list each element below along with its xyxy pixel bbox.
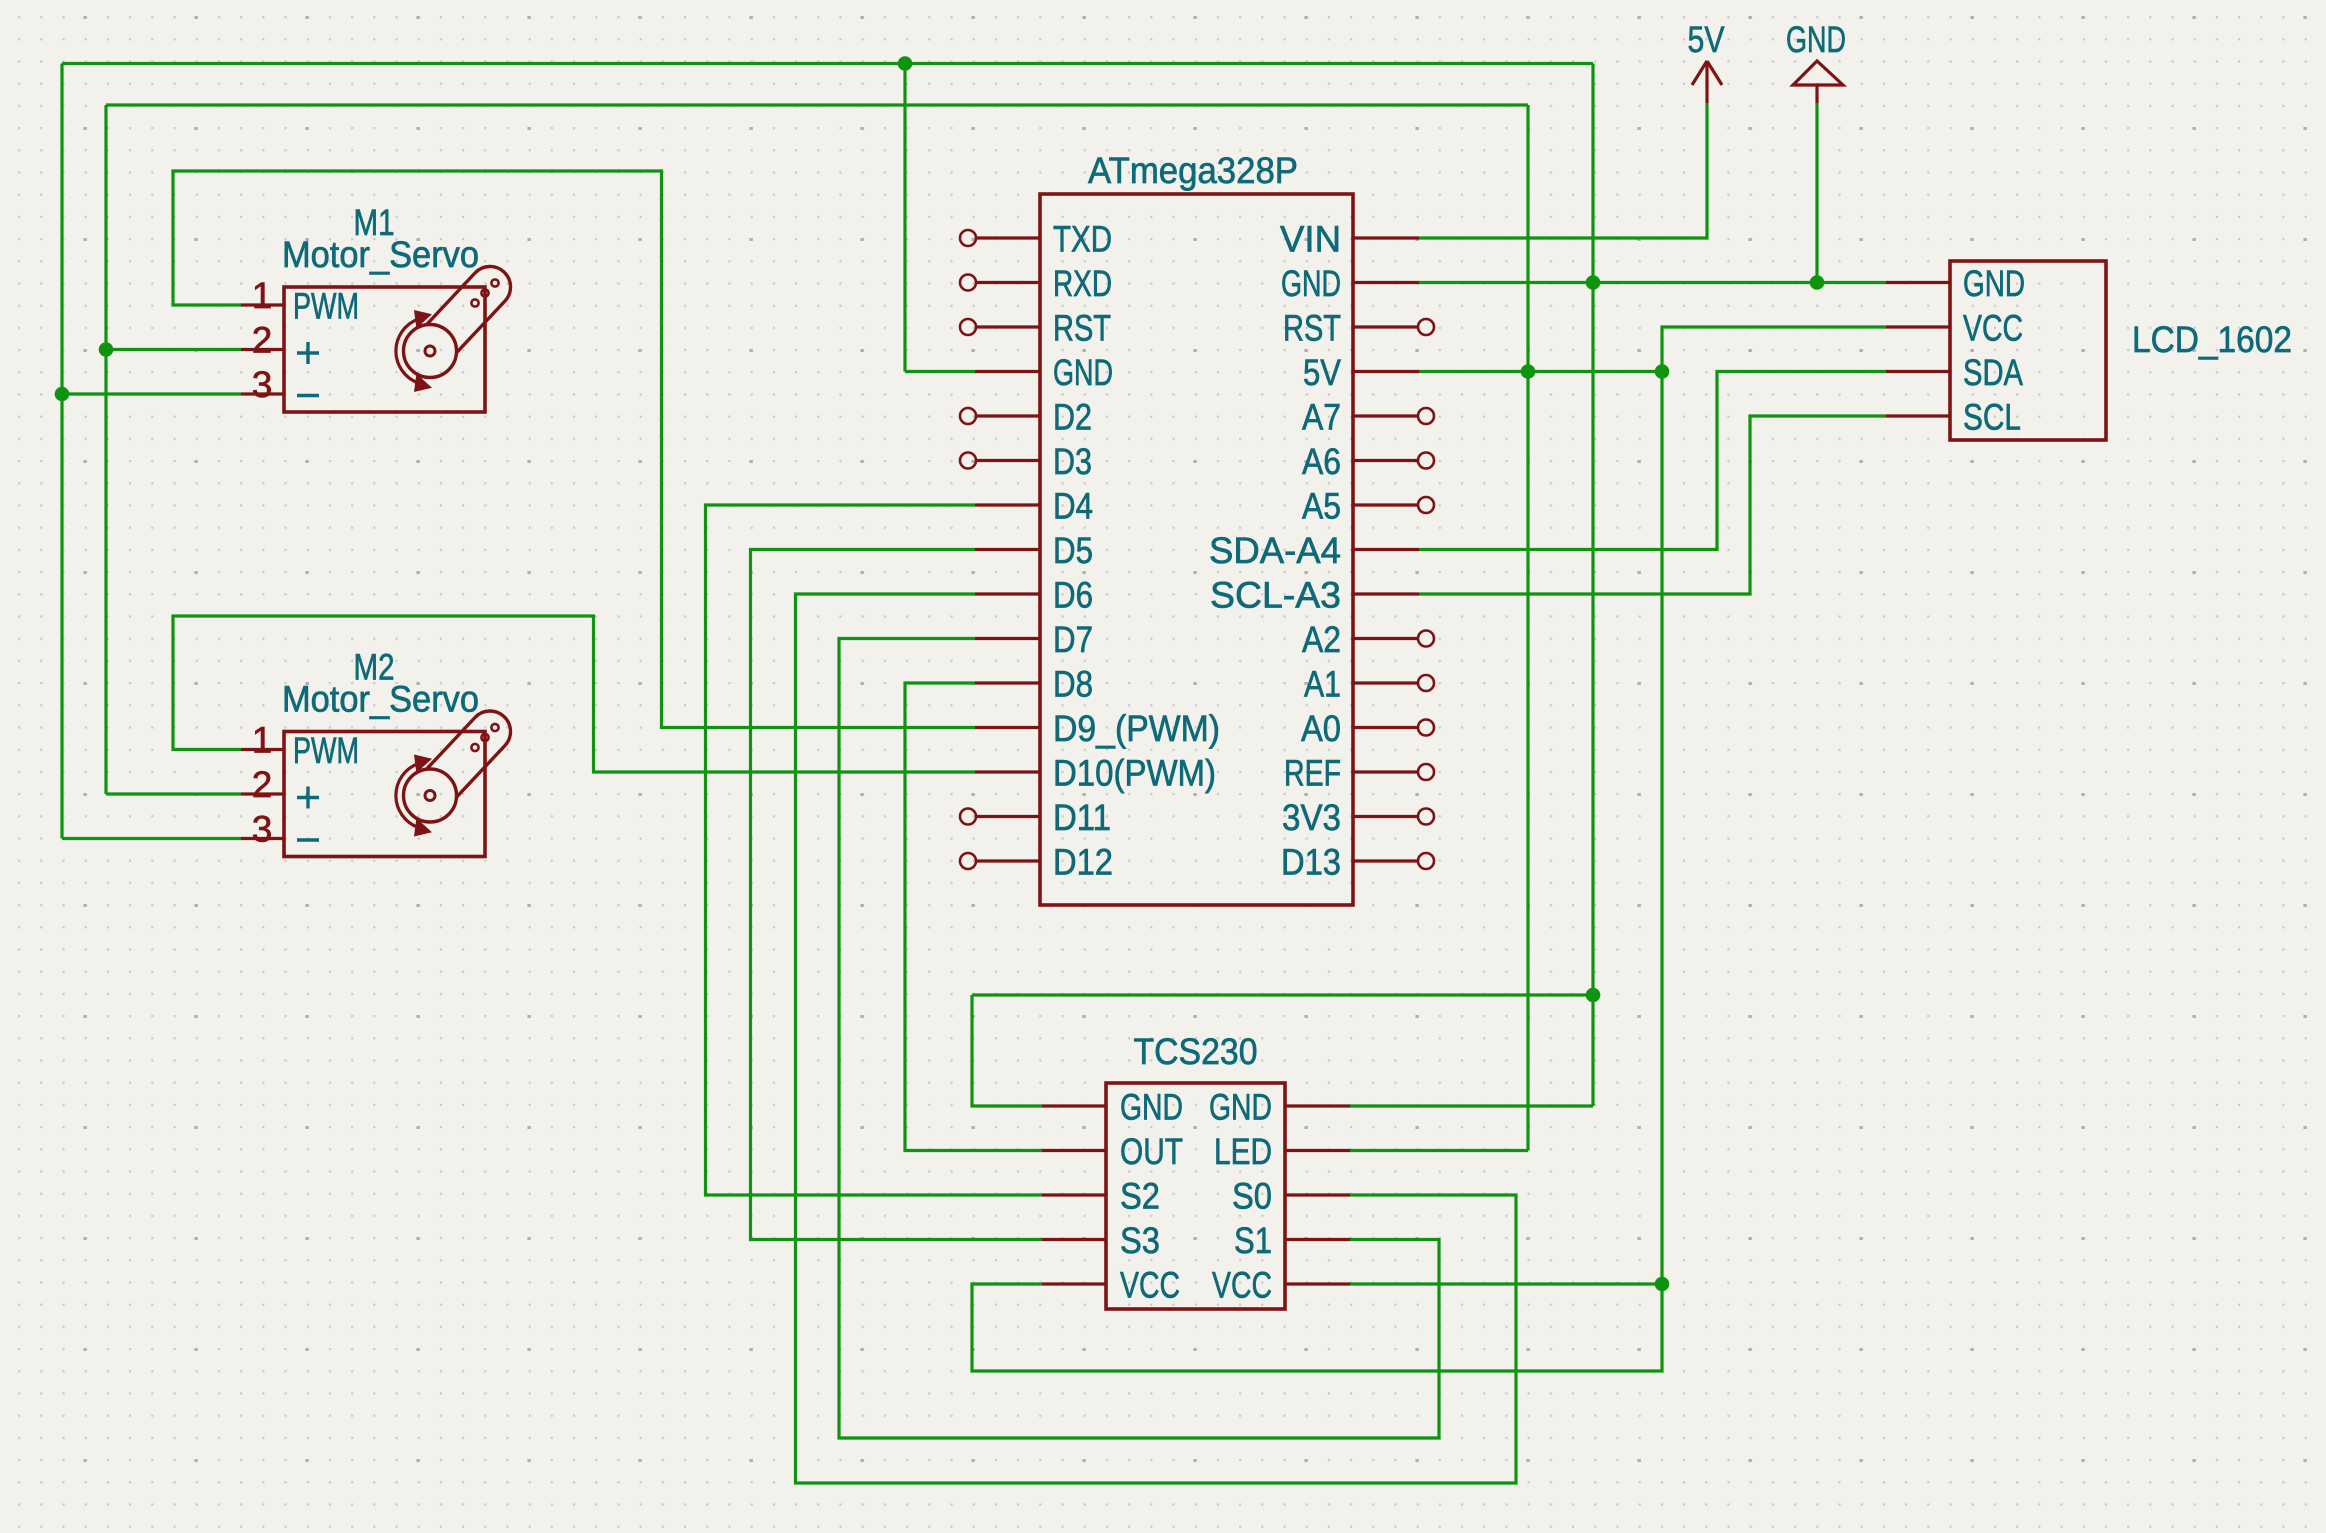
motor M2 arc arrowheads xyxy=(414,755,432,773)
svg-text:GND: GND xyxy=(1786,19,1846,60)
svg-text:2: 2 xyxy=(252,320,273,361)
wire GND net: top horizontal xyxy=(62,62,1593,65)
svg-text:3: 3 xyxy=(252,364,273,405)
wire 5V net: vertical x=1528 down to TCS LED xyxy=(1526,105,1529,1151)
ATmega328P left pin RST xyxy=(975,325,1040,328)
svg-text:D10(PWM): D10(PWM) xyxy=(1053,753,1216,794)
junction xyxy=(898,56,913,71)
LCD_1602 pin GND xyxy=(1886,281,1950,284)
svg-text:A7: A7 xyxy=(1302,397,1341,438)
ATmega328P left pin D10(PWM) xyxy=(975,770,1040,773)
TCS230 left pin VCC xyxy=(1042,1282,1106,1285)
svg-text:PWM: PWM xyxy=(293,730,359,771)
ATmega328P left pin D11 xyxy=(975,815,1040,818)
wire D4 to TCS S2 xyxy=(706,505,1043,1195)
junction xyxy=(1521,364,1536,379)
svg-text:D8: D8 xyxy=(1053,664,1093,705)
junction xyxy=(55,387,70,402)
motor M2 pin 3 − xyxy=(241,837,284,840)
ATmega328P right pin A6 xyxy=(1353,459,1419,462)
ATmega328P left pin RXD xyxy=(975,281,1040,284)
wire D7 to TCS S1 xyxy=(839,639,1439,1439)
wire 5V net: vertical x=1662 down to TCS VCC xyxy=(1660,372,1663,1285)
svg-text:VIN: VIN xyxy=(1280,219,1341,260)
wire 5V net: LCD VCC branch xyxy=(1662,327,1886,372)
motor M2 body xyxy=(284,732,485,857)
svg-text:GND: GND xyxy=(1963,263,2025,304)
wire GND net: into ATmega GND left pin xyxy=(905,370,975,373)
motor M1 rotation arc xyxy=(396,319,419,383)
wire M2 PWM to D10 xyxy=(173,616,975,772)
junction xyxy=(1810,275,1825,290)
wire GND net: horizontal to TCS230 GND right xyxy=(1349,1104,1593,1107)
ATmega328P left pin D9_(PWM) xyxy=(975,726,1040,729)
junction xyxy=(99,342,114,357)
wire M1 PWM to D9 xyxy=(173,171,975,728)
svg-text:2: 2 xyxy=(252,764,273,805)
wire 5V net: second horizontal xyxy=(106,103,1528,106)
svg-text:RST: RST xyxy=(1053,308,1111,349)
svg-text:TCS230: TCS230 xyxy=(1134,1031,1258,1072)
ATmega328P right pin A0 xyxy=(1353,726,1419,729)
motor M1 arc arrowheads xyxy=(414,310,432,328)
junction xyxy=(1655,364,1670,379)
wire SCL net: ATmega SCL-A3 to LCD SCL xyxy=(1419,416,1886,594)
TCS230 left pin GND xyxy=(1042,1104,1106,1107)
svg-text:GND: GND xyxy=(1053,352,1113,393)
ATmega328P right pin A5 xyxy=(1353,503,1419,506)
motor M1 body xyxy=(284,287,485,412)
LCD_1602 pin VCC xyxy=(1886,325,1950,328)
svg-text:S0: S0 xyxy=(1232,1176,1272,1217)
TCS230 right pin VCC xyxy=(1285,1282,1350,1285)
ATmega328P right pin A2 xyxy=(1353,637,1419,640)
svg-text:RST: RST xyxy=(1283,308,1341,349)
ATmega328P right pin SCL-A3 xyxy=(1353,592,1419,595)
wire VIN to 5V symbol xyxy=(1419,103,1707,238)
motor M2 servo arm xyxy=(427,711,511,797)
TCS230 right pin LED xyxy=(1285,1149,1350,1152)
wire 5V net: TCS230 VCC right horizontal xyxy=(1349,1282,1662,1285)
motor M1 pin 1 PWM xyxy=(241,303,284,306)
motor M2 pin 2 + xyxy=(241,792,284,795)
wire 5V net: ATmega 5V right pin row xyxy=(1419,370,1662,373)
svg-text:RXD: RXD xyxy=(1053,263,1112,304)
motor M1 servo arm dots xyxy=(491,279,498,286)
motor M2 servo gear circle xyxy=(404,769,457,822)
motor M2 servo gear center xyxy=(425,791,435,801)
svg-text:SCL-A3: SCL-A3 xyxy=(1210,575,1341,616)
ATmega328P right pin RST xyxy=(1353,325,1419,328)
svg-text:D6: D6 xyxy=(1053,575,1093,616)
junction xyxy=(1655,1277,1670,1292)
wire GND net: to M2 pin3 xyxy=(62,837,241,840)
ATmega328P right pin 5V xyxy=(1353,370,1419,373)
TCS230 left pin OUT xyxy=(1042,1149,1106,1152)
svg-text:PWM: PWM xyxy=(293,286,359,327)
ATmega328P right pin VIN xyxy=(1353,236,1419,239)
motor M1 servo gear center xyxy=(425,346,435,356)
svg-text:D4: D4 xyxy=(1053,486,1093,527)
ATmega328P right pin REF xyxy=(1353,770,1419,773)
ATmega328P right pin D13 xyxy=(1353,859,1419,862)
wire 5V net: to M2 pin2 xyxy=(106,792,241,795)
svg-text:ATmega328P: ATmega328P xyxy=(1088,150,1298,191)
svg-text:TXD: TXD xyxy=(1053,219,1112,260)
wire GND net: vertical x=1593 xyxy=(1591,64,1594,1107)
svg-text:D5: D5 xyxy=(1053,530,1093,571)
wire 5V net: to TCS230 LED right xyxy=(1349,1149,1528,1152)
svg-text:D11: D11 xyxy=(1053,797,1111,838)
wire GND net: GND symbol stem xyxy=(1815,103,1818,283)
motor M1 pin 2 + xyxy=(241,348,284,351)
wire GND net: drop to ATmega GND left xyxy=(903,64,906,372)
ATmega328P left pin D6 xyxy=(975,592,1040,595)
svg-text:S2: S2 xyxy=(1120,1176,1160,1217)
svg-text:SDA: SDA xyxy=(1963,352,2023,393)
svg-text:D3: D3 xyxy=(1053,441,1092,482)
svg-text:LED: LED xyxy=(1214,1131,1272,1172)
ATmega328P left pin D4 xyxy=(975,503,1040,506)
ATmega328P right pin A1 xyxy=(1353,681,1419,684)
svg-text:LCD_1602: LCD_1602 xyxy=(2132,319,2292,360)
motor M2 servo arm dots xyxy=(491,724,498,731)
power symbol GND xyxy=(1793,61,1843,85)
wire SDA net: ATmega SDA-A4 to LCD SDA xyxy=(1419,372,1886,550)
motor M1 servo gear circle xyxy=(404,325,457,378)
svg-text:3: 3 xyxy=(252,809,273,850)
wire 5V net: M1/M2 plus vertical bus xyxy=(104,105,107,794)
wire D8 to TCS OUT xyxy=(905,683,1042,1151)
svg-text:Motor_Servo: Motor_Servo xyxy=(282,234,479,275)
junction xyxy=(1586,988,1601,1003)
wire GND net: M1/M2 minus vertical bus xyxy=(60,64,63,839)
ATmega328P left pin D7 xyxy=(975,637,1040,640)
motor M2 rotation arc xyxy=(396,764,419,828)
ATmega328P left pin D8 xyxy=(975,681,1040,684)
IC U1 ATmega328P body xyxy=(1040,194,1353,905)
svg-text:GND: GND xyxy=(1281,263,1341,304)
ATmega328P left pin GND xyxy=(975,370,1040,373)
ATmega328P left pin D12 xyxy=(975,859,1040,862)
motor M2 pin 1 PWM xyxy=(241,748,284,751)
ATmega328P right pin GND xyxy=(1353,281,1419,284)
TCS230 left pin S2 xyxy=(1042,1193,1106,1196)
svg-text:D9_(PWM): D9_(PWM) xyxy=(1053,708,1220,749)
svg-text:A6: A6 xyxy=(1302,441,1341,482)
svg-text:VCC: VCC xyxy=(1120,1265,1180,1306)
svg-text:A2: A2 xyxy=(1302,619,1341,660)
svg-text:GND: GND xyxy=(1120,1087,1183,1128)
wire GND net: ATmega GND right to LCD GND xyxy=(1419,281,1886,284)
ATmega328P left pin D2 xyxy=(975,414,1040,417)
svg-text:D2: D2 xyxy=(1053,397,1092,438)
ATmega328P left pin TXD xyxy=(975,236,1040,239)
svg-text:1: 1 xyxy=(252,275,273,316)
svg-text:A1: A1 xyxy=(1304,664,1341,705)
ATmega328P left pin D5 xyxy=(975,548,1040,551)
svg-text:VCC: VCC xyxy=(1212,1265,1272,1306)
junction xyxy=(1586,275,1601,290)
svg-text:5V: 5V xyxy=(1303,352,1341,393)
svg-text:Motor_Servo: Motor_Servo xyxy=(282,679,479,720)
svg-text:A5: A5 xyxy=(1302,486,1341,527)
svg-text:D7: D7 xyxy=(1053,619,1093,660)
svg-text:A0: A0 xyxy=(1301,708,1341,749)
svg-text:S3: S3 xyxy=(1120,1220,1160,1261)
motor M1 servo arm xyxy=(427,266,511,352)
TCS230 right pin S0 xyxy=(1285,1193,1350,1196)
sensor U2 TCS230 body xyxy=(1106,1083,1285,1309)
wire GND net: to M1 pin3 xyxy=(62,392,241,395)
svg-text:S1: S1 xyxy=(1234,1220,1272,1261)
svg-text:D12: D12 xyxy=(1053,842,1113,883)
wire 5V net: to M1 pin2 xyxy=(106,348,241,351)
svg-text:3V3: 3V3 xyxy=(1282,797,1341,838)
svg-text:1: 1 xyxy=(252,720,273,761)
ATmega328P right pin 3V3 xyxy=(1353,815,1419,818)
motor M1 pin 3 − xyxy=(241,392,284,395)
TCS230 right pin S1 xyxy=(1285,1238,1350,1241)
ATmega328P left pin D3 xyxy=(975,459,1040,462)
TCS230 right pin GND xyxy=(1285,1104,1350,1107)
wire D5 to TCS S3 xyxy=(751,550,1043,1240)
TCS230 left pin S3 xyxy=(1042,1238,1106,1241)
display U3 LCD_1602 body xyxy=(1950,261,2106,440)
wire GND net: horizontal above TCS230 xyxy=(972,993,1593,996)
wire GND net: down to TCS230 GND left xyxy=(972,995,1042,1106)
svg-text:OUT: OUT xyxy=(1120,1131,1183,1172)
ATmega328P right pin A7 xyxy=(1353,414,1419,417)
svg-text:GND: GND xyxy=(1209,1087,1272,1128)
svg-text:5V: 5V xyxy=(1688,19,1725,60)
wire 5V net: loop to TCS230 VCC left xyxy=(972,1284,1662,1371)
power symbol 5V xyxy=(1705,61,1708,103)
svg-text:SDA-A4: SDA-A4 xyxy=(1209,530,1341,571)
svg-text:SCL: SCL xyxy=(1963,397,2021,438)
LCD_1602 pin SCL xyxy=(1886,414,1950,417)
ATmega328P right pin SDA-A4 xyxy=(1353,548,1419,551)
wire D6 to TCS S0 xyxy=(796,594,1517,1483)
LCD_1602 pin SDA xyxy=(1886,370,1950,373)
svg-text:D13: D13 xyxy=(1281,842,1341,883)
svg-text:VCC: VCC xyxy=(1963,308,2023,349)
svg-text:REF: REF xyxy=(1284,753,1341,794)
